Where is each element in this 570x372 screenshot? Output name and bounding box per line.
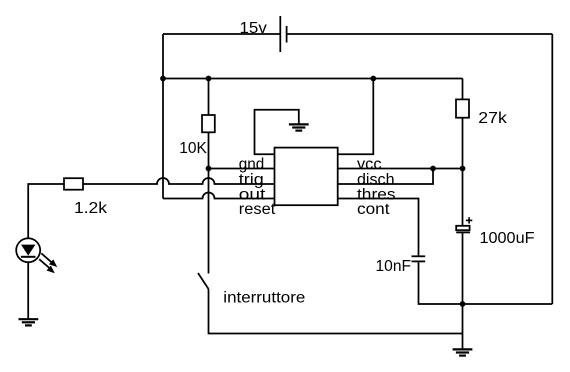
capacitor C2 10nF — [412, 256, 426, 261]
svg-text:1000uF: 1000uF — [480, 230, 535, 247]
wire rail to R 10K — [208, 79, 210, 116]
wire left vertical (battery to out corner) — [162, 34, 164, 199]
wire gnd bracket — [255, 110, 299, 154]
svg-text:15v: 15v — [240, 20, 268, 37]
svg-text:10nF: 10nF — [376, 258, 412, 275]
battery B1 — [280, 16, 286, 52]
wire battery right — [287, 33, 553, 35]
node rail-vcc junction — [370, 76, 376, 82]
LED arrows — [39, 253, 57, 273]
wire bottom rail — [463, 303, 553, 305]
resistor 1.2k — [64, 178, 83, 190]
ground right — [453, 349, 473, 355]
ground middle — [289, 124, 309, 130]
wire rail corner to R 27k — [462, 79, 464, 100]
wire disch pin — [338, 169, 433, 185]
LED D1 — [16, 238, 40, 262]
wire C 10nF to bottom rail — [419, 261, 463, 304]
svg-text:cont: cont — [357, 201, 390, 218]
wire switch bottom — [209, 289, 463, 334]
svg-text:reset: reset — [239, 201, 276, 218]
svg-text:gnd: gnd — [239, 156, 264, 173]
capacitor C1 1000uF — [456, 226, 470, 233]
wire trig line with hops — [83, 178, 275, 184]
wire battery left — [163, 33, 280, 35]
node vcc-27k junction — [460, 166, 466, 172]
wire vcc line to C 1000uF — [462, 169, 464, 226]
wire out line with hop — [163, 193, 275, 199]
node disch-vcc junction — [430, 166, 436, 172]
svg-text:27k: 27k — [478, 110, 507, 127]
wire vcc pin — [338, 168, 463, 170]
wire R 10K down to switch — [208, 132, 210, 273]
wire vcc to rail — [338, 79, 374, 155]
ground LED — [19, 319, 39, 325]
wire right border — [551, 34, 553, 304]
resistor 10K — [202, 115, 215, 132]
svg-text:1.2k: 1.2k — [74, 200, 107, 217]
node rail-10K junction — [206, 76, 212, 82]
switch blade — [198, 273, 209, 289]
wire LED top corner — [28, 184, 64, 238]
svg-text:interruttore: interruttore — [223, 290, 305, 307]
svg-text:vcc: vcc — [357, 156, 382, 173]
wire C 1000uF to bottom rail — [462, 232, 464, 349]
capacitor C1 1000uF plus sign — [466, 217, 472, 223]
resistor 27k — [456, 99, 469, 117]
wire R 27k to vcc line — [462, 118, 464, 169]
op-amp U1 555 body — [275, 148, 338, 206]
wire thres pin — [338, 199, 419, 257]
wire gnd pin — [209, 168, 275, 170]
wire vcc rail — [163, 78, 463, 80]
node bottom junction — [460, 301, 466, 307]
svg-text:10K: 10K — [179, 140, 207, 157]
wire LED to ground — [27, 262, 29, 319]
node rail-left junction — [160, 76, 166, 82]
node gnd junction — [206, 166, 212, 172]
